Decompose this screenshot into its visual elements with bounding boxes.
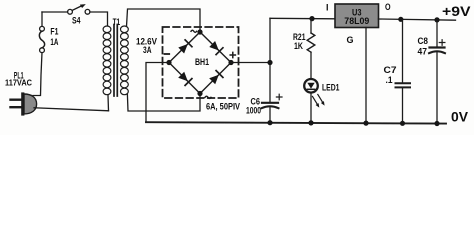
svg-text:C8: C8 [418, 36, 429, 47]
svg-text:BH1: BH1 [195, 57, 210, 68]
wire secondary bottom to bridge ac2 [127, 94, 200, 112]
svg-text:I: I [326, 3, 329, 13]
top +dc rail to regulator [270, 17, 335, 20]
riser / +dc node [269, 18, 271, 102]
svg-text:6A, 50PIV: 6A, 50PIV [206, 102, 241, 113]
resistor R21 [293, 19, 315, 80]
svg-text:LED1: LED1 [322, 83, 340, 93]
svg-text:1000: 1000 [246, 106, 261, 116]
capacitor C6 [246, 94, 282, 125]
0V rail [146, 122, 446, 123]
diode D3 (left-bottom) [178, 72, 192, 86]
svg-text:0V: 0V [451, 109, 469, 125]
svg-text:117VAC: 117VAC [5, 77, 32, 87]
svg-text:G: G [347, 35, 354, 45]
capacitor C8 [418, 20, 446, 126]
wire plug bottom to transformer [34, 108, 109, 111]
voltage regulator U3 78L09 [326, 2, 391, 45]
svg-text:O: O [385, 2, 391, 12]
svg-text:S4: S4 [72, 16, 81, 26]
primary winding [103, 26, 111, 95]
svg-text:3A: 3A [143, 45, 152, 55]
transformer T1 [103, 17, 157, 96]
+9V output rail [379, 19, 456, 20]
wire top-left vertical [41, 12, 43, 26]
capacitor C7 [384, 19, 411, 126]
bridge rectifier BH1 [163, 27, 241, 113]
svg-text:.1: .1 [386, 75, 394, 86]
svg-text:47: 47 [418, 47, 428, 58]
diode D1 (left-top) [178, 40, 192, 54]
svg-text:1K: 1K [294, 41, 303, 51]
corner junction dots [197, 29, 202, 34]
node R21 top dot [309, 16, 314, 21]
secondary winding [121, 26, 129, 95]
fuse F1 [39, 26, 58, 52]
svg-text:+9V: +9V [442, 3, 471, 19]
LED1 [304, 79, 339, 126]
wire top-left horizontal [42, 11, 68, 13]
wire primary bottom return [107, 95, 110, 111]
wire bridge minus to 0V rail [146, 63, 169, 123]
wire bridge plus to riser [231, 62, 270, 64]
node junction dot [267, 60, 272, 65]
svg-text:F1: F1 [50, 27, 58, 37]
wire secondary top to bridge ac1 [127, 9, 201, 32]
polarity labels [191, 30, 197, 32]
core [113, 25, 115, 97]
wire regulator ground [365, 28, 367, 124]
dashed box [163, 27, 239, 98]
diamond edges [169, 32, 231, 94]
plug PL1 117VAC [5, 70, 37, 114]
wire switch to transformer primary [90, 12, 108, 25]
diode D4 (bottom-right) [209, 71, 223, 85]
svg-text:78L09: 78L09 [344, 16, 369, 26]
switch S4 [68, 4, 90, 25]
wire fuse to plug [33, 53, 42, 96]
svg-text:1A: 1A [50, 37, 58, 47]
diode D2 (top-right) [209, 41, 223, 55]
